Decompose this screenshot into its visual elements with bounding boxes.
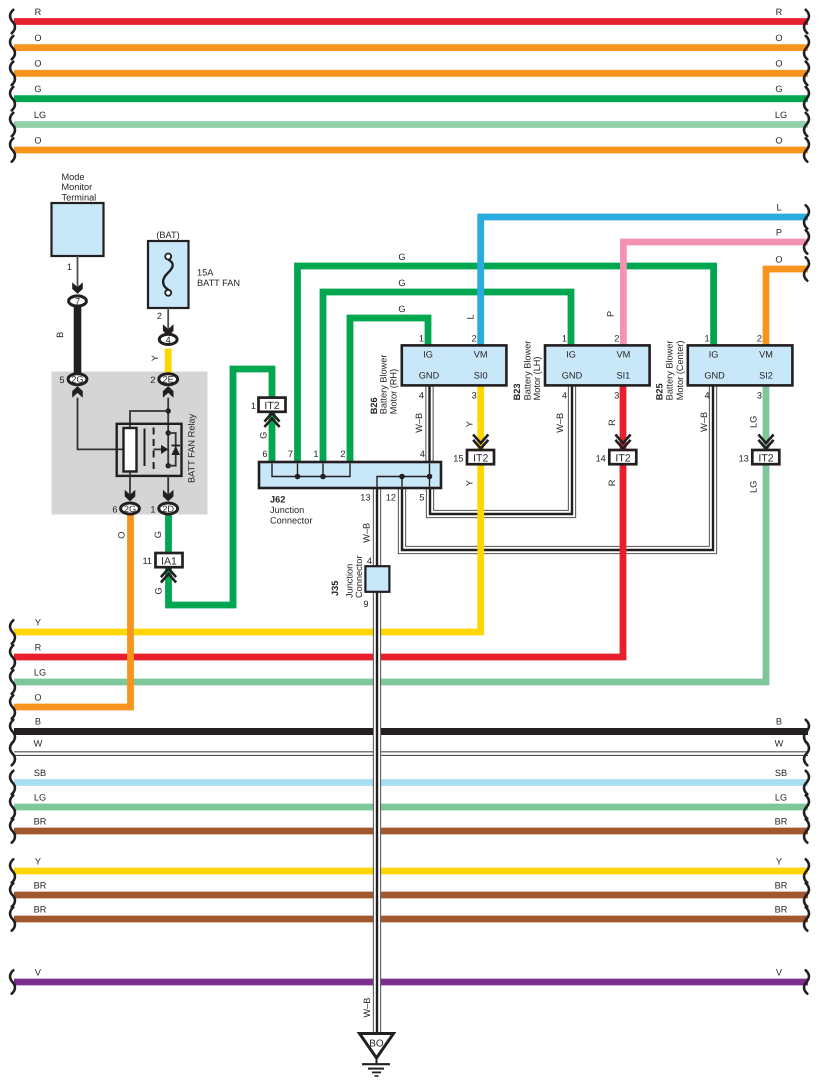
junction connector J35 bbox=[330, 556, 389, 609]
svg-text:SI2: SI2 bbox=[759, 371, 773, 381]
svg-text:IA1: IA1 bbox=[161, 556, 177, 568]
lead transistor -> 2D bbox=[167, 476, 169, 497]
wire W-B: B23 GND -> J62 pin 5 bbox=[430, 385, 572, 514]
svg-text:3: 3 bbox=[472, 391, 477, 401]
svg-text:J35: J35 bbox=[330, 581, 340, 596]
svg-text:BR: BR bbox=[775, 816, 788, 826]
svg-text:2D: 2D bbox=[162, 504, 174, 514]
svg-text:12: 12 bbox=[386, 493, 396, 503]
wire G: J62 pin 2 -> B26 IG bbox=[350, 318, 428, 462]
wire P: right edge -> B23 VM bbox=[606, 227, 809, 345]
svg-text:IT2: IT2 bbox=[758, 452, 773, 464]
relay pin ellipse 6 2G bbox=[112, 490, 139, 515]
lead 2E down with junction dot bbox=[167, 398, 169, 433]
svg-text:IG: IG bbox=[709, 350, 719, 360]
svg-text:(BAT): (BAT) bbox=[156, 230, 179, 240]
svg-text:IG: IG bbox=[566, 350, 576, 360]
wire Y: IT2 -> left edge bottom band bbox=[10, 462, 481, 644]
wire BR (bottom band 1) bbox=[10, 816, 809, 842]
wire O: right edge -> B25 VM bbox=[766, 254, 809, 346]
wire O: relay 2G -> left edge bottom band bbox=[10, 512, 130, 719]
svg-text:Y: Y bbox=[35, 617, 41, 627]
diode branch bbox=[168, 433, 176, 466]
svg-text:13: 13 bbox=[360, 493, 370, 503]
J62 internal bus pins 6-7-1-2 bbox=[272, 464, 350, 477]
svg-text:Junction: Junction bbox=[270, 505, 304, 515]
wire G (top band 4) bbox=[10, 84, 809, 110]
svg-text:IT2: IT2 bbox=[473, 452, 488, 464]
svg-text:5: 5 bbox=[419, 493, 424, 503]
transistor drain/source rails bbox=[167, 433, 169, 466]
svg-text:V: V bbox=[35, 967, 42, 977]
svg-text:2: 2 bbox=[614, 333, 619, 343]
svg-text:14: 14 bbox=[596, 453, 606, 463]
wire B (bottom band, black) bbox=[10, 717, 809, 744]
svg-text:Y: Y bbox=[465, 480, 475, 486]
wire G: J62 pin 7 -> B25 IG bbox=[298, 266, 714, 462]
Mode Monitor Terminal box bbox=[52, 172, 104, 256]
wire LG (bottom band) bbox=[10, 792, 809, 818]
svg-text:R: R bbox=[35, 7, 42, 17]
diode D (body diode) bbox=[171, 446, 180, 455]
svg-text:Connector: Connector bbox=[270, 516, 312, 526]
wire BR (bottom band 2) bbox=[10, 880, 809, 906]
relay pin ellipse 2 2E bbox=[150, 374, 177, 398]
svg-text:O: O bbox=[775, 135, 782, 145]
motor B23 Battery Blower Motor (LH) bbox=[512, 333, 649, 400]
svg-text:O: O bbox=[775, 59, 782, 69]
svg-text:LG: LG bbox=[775, 110, 787, 120]
svg-text:O: O bbox=[775, 254, 782, 264]
svg-text:SI0: SI0 bbox=[474, 371, 488, 381]
svg-text:4: 4 bbox=[420, 449, 425, 459]
connector circle 7 bbox=[69, 296, 87, 307]
svg-text:6: 6 bbox=[262, 449, 267, 459]
svg-text:2: 2 bbox=[150, 375, 155, 385]
relay pin ellipse 1 2D bbox=[150, 490, 177, 515]
motor B26 Battery Blower Motor (RH) bbox=[369, 333, 506, 414]
wire W (bottom band, white with outline) bbox=[10, 739, 809, 766]
svg-text:BR: BR bbox=[34, 816, 47, 826]
svg-text:J62: J62 bbox=[270, 495, 285, 505]
svg-text:2: 2 bbox=[340, 449, 345, 459]
svg-text:4: 4 bbox=[704, 391, 709, 401]
lead coil bottom -> 2G bbox=[129, 472, 131, 498]
svg-text:R: R bbox=[607, 479, 617, 486]
svg-text:BATT FAN Relay: BATT FAN Relay bbox=[187, 414, 197, 483]
svg-text:W–B: W–B bbox=[361, 523, 371, 543]
svg-text:1: 1 bbox=[150, 504, 155, 514]
junction connector IT2 (15) with chevron bbox=[453, 435, 494, 465]
svg-text:B: B bbox=[35, 717, 41, 727]
svg-text:1: 1 bbox=[67, 262, 72, 272]
svg-text:Battery Blower: Battery Blower bbox=[379, 355, 389, 415]
dashed gate line bbox=[153, 428, 155, 470]
svg-text:Y: Y bbox=[150, 355, 160, 361]
svg-text:2: 2 bbox=[472, 333, 477, 343]
svg-text:Connector: Connector bbox=[354, 556, 364, 598]
svg-text:Mode: Mode bbox=[62, 172, 85, 182]
svg-text:BR: BR bbox=[34, 880, 47, 890]
relay core bar bbox=[144, 429, 146, 467]
svg-text:7: 7 bbox=[288, 449, 293, 459]
svg-text:LG: LG bbox=[34, 667, 46, 677]
lead 2G -> coil left bbox=[78, 398, 124, 450]
junction connector IT2 (13) with chevron bbox=[739, 435, 780, 465]
wire G: J62 pin 1 -> B23 IG bbox=[323, 292, 571, 462]
svg-text:LG: LG bbox=[34, 792, 46, 802]
svg-text:BR: BR bbox=[775, 904, 788, 914]
svg-text:G: G bbox=[398, 304, 405, 314]
svg-text:Battery Blower: Battery Blower bbox=[665, 341, 675, 401]
svg-text:V: V bbox=[776, 967, 783, 977]
svg-text:VM: VM bbox=[474, 350, 488, 360]
ground BO bbox=[360, 1034, 394, 1077]
svg-text:B26: B26 bbox=[369, 397, 379, 414]
svg-text:O: O bbox=[34, 692, 41, 702]
svg-text:2: 2 bbox=[757, 333, 762, 343]
svg-text:GND: GND bbox=[419, 371, 440, 381]
gate arrow bbox=[154, 448, 162, 450]
connector circle 4 bbox=[159, 334, 177, 345]
svg-text:G: G bbox=[258, 432, 268, 439]
svg-text:13: 13 bbox=[739, 453, 749, 463]
svg-text:W–B: W–B bbox=[699, 412, 709, 432]
svg-text:LG: LG bbox=[775, 792, 787, 802]
svg-text:P: P bbox=[606, 311, 616, 317]
svg-text:O: O bbox=[775, 33, 782, 43]
svg-text:Y: Y bbox=[35, 856, 41, 866]
svg-text:4: 4 bbox=[419, 391, 424, 401]
svg-text:LG: LG bbox=[749, 416, 759, 428]
motor B25 Battery Blower Motor (Center) bbox=[655, 333, 793, 400]
junction connector IT2 (1) bbox=[251, 398, 286, 427]
svg-text:1: 1 bbox=[251, 401, 256, 411]
svg-text:5: 5 bbox=[59, 375, 64, 385]
wire W-B: B25 GND -> J62 pin 12 bbox=[402, 386, 713, 550]
svg-text:IG: IG bbox=[423, 350, 433, 360]
svg-text:Motor (Center): Motor (Center) bbox=[675, 341, 685, 401]
svg-text:R: R bbox=[35, 642, 42, 652]
svg-text:P: P bbox=[776, 227, 782, 237]
svg-text:VM: VM bbox=[617, 350, 631, 360]
svg-text:BO: BO bbox=[369, 1039, 384, 1050]
svg-text:G: G bbox=[398, 252, 405, 262]
svg-text:Terminal: Terminal bbox=[62, 193, 97, 203]
svg-text:VM: VM bbox=[759, 350, 773, 360]
svg-text:W–B: W–B bbox=[362, 998, 372, 1018]
svg-text:BATT FAN: BATT FAN bbox=[197, 278, 240, 288]
wire G loop: relay 2D -> IA1 -> IT2 -> J62 pin 6 bbox=[169, 369, 273, 605]
BATT FAN Relay internals bbox=[78, 398, 197, 497]
svg-text:SI1: SI1 bbox=[617, 371, 631, 381]
wire W-B: B26 GND -> J62 pin 4 bbox=[414, 385, 430, 462]
svg-text:Monitor: Monitor bbox=[62, 182, 93, 192]
wire LG: B25 SI2 -> IT2 bbox=[763, 386, 770, 452]
relay outline box bbox=[117, 424, 182, 476]
svg-text:O: O bbox=[34, 59, 41, 69]
svg-text:BR: BR bbox=[775, 880, 788, 890]
svg-text:Motor (LH): Motor (LH) bbox=[532, 356, 542, 400]
svg-text:IT2: IT2 bbox=[615, 452, 630, 464]
fuse 15A BATT FAN (BAT) bbox=[148, 230, 240, 308]
svg-text:O: O bbox=[34, 33, 41, 43]
svg-text:15: 15 bbox=[453, 453, 463, 463]
svg-text:LG: LG bbox=[34, 110, 46, 120]
pin 2 lead from fuse bbox=[157, 308, 174, 336]
wire O (top band 2) bbox=[10, 33, 809, 59]
svg-text:W–B: W–B bbox=[414, 413, 424, 433]
svg-text:Y: Y bbox=[776, 856, 782, 866]
wire Y (bottom band, full width) bbox=[10, 856, 809, 882]
svg-text:B: B bbox=[776, 717, 782, 727]
wire Y: circle 4 -> relay 2E bbox=[150, 349, 168, 375]
svg-text:Y: Y bbox=[465, 421, 475, 427]
svg-text:1: 1 bbox=[313, 449, 318, 459]
svg-text:Battery Blower: Battery Blower bbox=[522, 341, 532, 401]
svg-text:LG: LG bbox=[749, 481, 759, 493]
wire LG: IT2 -> left edge bottom band bbox=[10, 462, 766, 694]
wire R (top band 1) bbox=[10, 7, 809, 33]
svg-text:BR: BR bbox=[34, 904, 47, 914]
svg-text:9: 9 bbox=[363, 599, 368, 609]
svg-text:B: B bbox=[55, 332, 65, 338]
wire V (bottom band, violet) bbox=[10, 967, 809, 993]
wire R: IT2 -> left edge bottom band bbox=[10, 462, 623, 669]
relay pin ellipse 5 2G bbox=[59, 374, 87, 398]
svg-text:R: R bbox=[776, 7, 783, 17]
junction connector J62 bbox=[259, 449, 441, 526]
svg-text:4: 4 bbox=[562, 391, 567, 401]
svg-text:GND: GND bbox=[704, 371, 725, 381]
svg-text:IT2: IT2 bbox=[264, 400, 279, 412]
wire R: B23 SI1 -> IT2 bbox=[620, 385, 627, 452]
J62 internal bus pins 13-12-5-4 bbox=[377, 464, 430, 487]
wire O (top band 6) bbox=[10, 135, 809, 161]
wire B: circle 7 -> relay 2G bbox=[55, 307, 77, 375]
wire L: right edge -> B26 VM bbox=[466, 202, 809, 345]
relay coil bbox=[124, 428, 137, 472]
svg-text:1: 1 bbox=[562, 333, 567, 343]
svg-text:SB: SB bbox=[775, 768, 787, 778]
svg-text:B25: B25 bbox=[655, 383, 665, 400]
svg-text:4: 4 bbox=[367, 556, 372, 566]
svg-text:2G: 2G bbox=[71, 375, 83, 385]
svg-text:W: W bbox=[34, 739, 43, 749]
svg-text:G: G bbox=[154, 587, 164, 594]
wire SB (bottom band, sky blue) bbox=[10, 768, 809, 794]
svg-text:2E: 2E bbox=[163, 375, 174, 385]
svg-text:G: G bbox=[34, 84, 41, 94]
wire BR (bottom band 3) bbox=[10, 904, 809, 930]
pin 1 lead from Mode Monitor Terminal bbox=[67, 256, 83, 294]
svg-text:O: O bbox=[34, 135, 41, 145]
BATT FAN Relay ground-shield gray box bbox=[52, 372, 208, 515]
svg-text:3: 3 bbox=[614, 391, 619, 401]
junction connector IT2 (14) with chevron bbox=[596, 435, 637, 465]
svg-text:L: L bbox=[466, 314, 476, 319]
svg-text:4: 4 bbox=[166, 335, 171, 345]
svg-text:G: G bbox=[775, 84, 782, 94]
svg-text:R: R bbox=[607, 419, 617, 426]
svg-text:W: W bbox=[775, 739, 784, 749]
svg-text:G: G bbox=[398, 278, 405, 288]
svg-text:G: G bbox=[153, 531, 163, 538]
svg-text:W–B: W–B bbox=[555, 413, 565, 433]
svg-text:O: O bbox=[116, 532, 126, 539]
wire O (top band 3) bbox=[10, 59, 809, 85]
svg-text:3: 3 bbox=[757, 391, 762, 401]
svg-text:SB: SB bbox=[34, 768, 46, 778]
svg-text:Motor (RH): Motor (RH) bbox=[388, 369, 398, 414]
svg-text:L: L bbox=[776, 202, 781, 212]
svg-text:15A: 15A bbox=[197, 268, 214, 278]
svg-text:B23: B23 bbox=[512, 384, 522, 401]
svg-text:2G: 2G bbox=[124, 504, 136, 514]
svg-text:1: 1 bbox=[419, 333, 424, 343]
branch to coil top bbox=[130, 411, 168, 428]
svg-text:11: 11 bbox=[142, 556, 152, 566]
svg-text:6: 6 bbox=[112, 504, 117, 514]
svg-text:1: 1 bbox=[704, 333, 709, 343]
junction connector IA1 bbox=[142, 553, 182, 583]
wire Y: B26 SI0 -> IT2 bbox=[477, 385, 484, 452]
wire W-B: J62 pin 13 -> J35 -> BO ground bbox=[361, 488, 377, 1033]
svg-text:2: 2 bbox=[157, 311, 162, 321]
svg-text:GND: GND bbox=[562, 371, 583, 381]
svg-text:7: 7 bbox=[75, 296, 80, 306]
wire LG (top band 5) bbox=[10, 110, 809, 136]
